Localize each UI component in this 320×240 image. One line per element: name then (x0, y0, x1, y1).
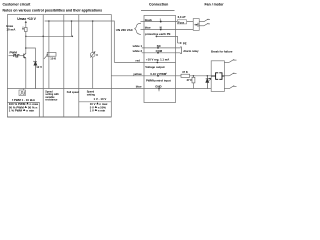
capacitor symbol inside (211, 73, 224, 80)
row COM white2 (132, 49, 181, 54)
svg-text:red: red (136, 59, 141, 63)
pull-up node vertical with arrow (25, 22, 27, 54)
svg-text:resistance: resistance (45, 99, 58, 102)
header texts (3, 2, 225, 12)
svg-text:white 2: white 2 (132, 49, 143, 53)
zener diode 12 V (34, 61, 37, 89)
svg-text:black: black (145, 18, 153, 22)
col3 full speed wire (71, 21, 73, 36)
svg-text:Notes on various control possi: Notes on various control possibilities a… (3, 8, 103, 12)
row L black (141, 17, 176, 22)
N wire to motor box (176, 29, 194, 31)
connection box (144, 15, 176, 102)
svg-text:Fuse: Fuse (178, 21, 185, 25)
svg-text:UN 230 VAC: UN 230 VAC (116, 28, 134, 32)
caption col1 (9, 89, 39, 113)
svg-text:Alarm relay: Alarm relay (183, 49, 199, 53)
PE arrow (178, 41, 187, 45)
output contact 3 (224, 86, 236, 89)
yellow wire to electronics (176, 75, 212, 77)
GND wire to electronics (176, 88, 212, 90)
caption col2 (45, 90, 59, 101)
wire rail through pot to bus (48, 21, 50, 89)
svg-text:white 1: white 1 (132, 44, 143, 48)
svg-text:PWM/control input: PWM/control input (146, 78, 171, 82)
dot to zener branch (25, 47, 27, 49)
motor box with arrow (193, 19, 199, 31)
resistor R1 (25, 28, 28, 32)
caption divider / GND bus (7, 88, 111, 90)
col2 potentiometer option (44, 20, 56, 88)
svg-text:PWM: PWM (10, 50, 18, 54)
svg-text:blue: blue (136, 85, 142, 89)
svg-text:COM: COM (156, 49, 163, 53)
svg-text:10 mA: 10 mA (6, 27, 16, 31)
column divider 2 (63, 15, 65, 117)
col1 PWM option (6, 17, 42, 89)
relay contact plug bracket (180, 47, 181, 54)
mains label UN 230 VAC with brace (116, 23, 141, 34)
caption cell line col1 (7, 102, 39, 117)
row yellow 0-10V PWM (111, 72, 175, 77)
electronics box (211, 61, 224, 92)
svg-text:Customer circuit: Customer circuit (3, 2, 32, 6)
rule under Connection (141, 9, 175, 12)
svg-text:47 K: 47 K (182, 70, 188, 74)
svg-text:Full speed: Full speed (67, 91, 80, 94)
row N blue (141, 25, 176, 30)
svg-text:10 K: 10 K (50, 56, 56, 60)
svg-text:protective earth PE: protective earth PE (145, 32, 171, 36)
caption col4 (87, 90, 108, 112)
emitter wire down (25, 58, 27, 89)
relay contact 2 (199, 23, 210, 26)
svg-text:6,3 AT: 6,3 AT (178, 15, 186, 19)
svg-text:setting: setting (87, 93, 96, 96)
fuse 6,3 AT (176, 15, 194, 25)
column divider 3 (78, 15, 80, 117)
svg-text:47 K: 47 K (187, 78, 193, 82)
output contact 1 (224, 59, 236, 62)
wire to zener (26, 48, 36, 62)
svg-text:Voltage output: Voltage output (145, 65, 164, 69)
svg-text:blue: blue (145, 26, 151, 30)
svg-text:PE: PE (183, 41, 187, 45)
customer circuit outer box (7, 15, 111, 117)
column divider 1 / control line (42, 15, 44, 117)
svg-text:Umax +10 V: Umax +10 V (17, 17, 36, 21)
svg-text:1 V ≙ n min: 1 V ≙ n min (90, 109, 106, 113)
svg-text:Fan / motor: Fan / motor (205, 2, 225, 6)
+10V rail (45, 21, 115, 62)
row red +10V (114, 57, 175, 63)
svg-text:Connection: Connection (149, 2, 168, 6)
PWM square wave icon (14, 54, 20, 57)
svg-text:12 V: 12 V (36, 65, 42, 69)
47K pulldown resistor (187, 75, 195, 89)
svg-text:1 % PWM ≙ n min: 1 % PWM ≙ n min (9, 109, 35, 113)
svg-text:U: U (96, 54, 98, 57)
svg-text:Break for failure: Break for failure (211, 49, 233, 53)
caption cell line col4 (79, 101, 112, 103)
transistor Q1 (24, 54, 26, 58)
bottom border emphasize (7, 116, 111, 118)
svg-text:1 V - 10 V: 1 V - 10 V (94, 97, 107, 101)
svg-text:NC: NC (157, 44, 161, 48)
svg-text:yellow: yellow (133, 72, 142, 76)
control bus (26, 35, 73, 37)
row GND blue (111, 85, 175, 92)
row PE (145, 32, 178, 43)
bus junction dots (25, 36, 27, 38)
zener in fan (206, 76, 211, 89)
down arrow (22, 27, 24, 30)
col4 voltage source option (90, 20, 98, 88)
svg-text:0-10 V PWM¹: 0-10 V PWM¹ (150, 72, 167, 76)
row NC white1 (132, 44, 181, 49)
potentiometer 10 K (47, 53, 56, 57)
PWM icon box (23, 89, 25, 91)
base wire (9, 55, 24, 57)
source circle U (90, 52, 95, 57)
47K series resistor (181, 70, 190, 77)
svg-text:+10 V reg. 1.1 mA: +10 V reg. 1.1 mA (146, 57, 169, 61)
relay contact 1 (199, 19, 210, 22)
output contact 2 (224, 73, 236, 76)
